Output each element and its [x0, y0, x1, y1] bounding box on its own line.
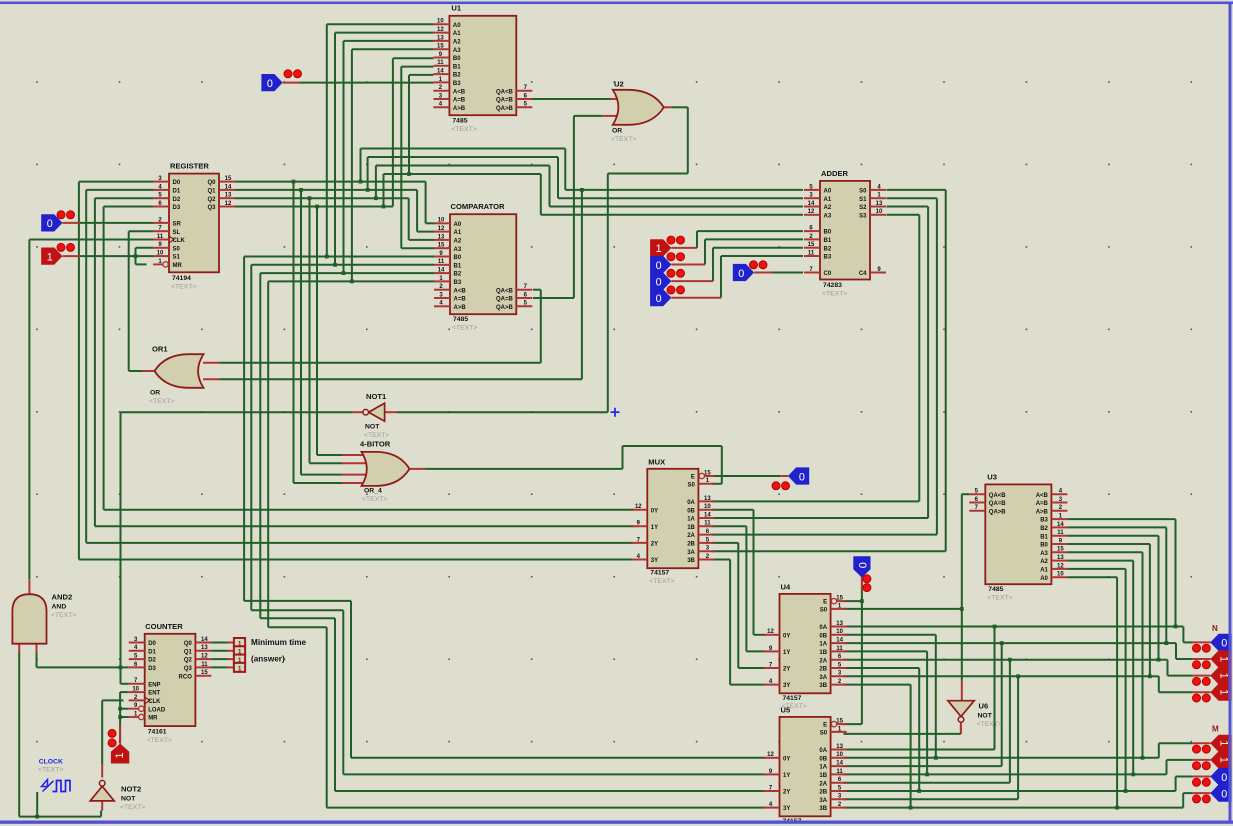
svg-text:D3: D3 — [173, 205, 181, 211]
svg-text:1: 1 — [656, 243, 662, 255]
svg-text:3Y: 3Y — [783, 806, 790, 812]
svg-text:AND2: AND2 — [52, 593, 73, 602]
svg-text:RCO: RCO — [179, 674, 193, 680]
svg-text:0B: 0B — [819, 633, 827, 639]
svg-text:3Y: 3Y — [651, 558, 658, 564]
wire AND2 output to REGISTER.CLK — [29, 240, 153, 580]
svg-text:<TEXT>: <TEXT> — [649, 578, 674, 585]
svg-text:MR: MR — [148, 716, 158, 722]
svg-text:OR_4: OR_4 — [364, 488, 382, 495]
wire net Q2: REGISTER.Q2 to ADDER.A2, COMPARATOR.A2, 4BITOR.in2 — [235, 166, 803, 464]
svg-text:A3: A3 — [453, 48, 461, 54]
svg-text:0: 0 — [1221, 772, 1227, 784]
ADDER 74283 — [804, 169, 886, 297]
wire logicstate 1 to REGISTER.S1, S0, MR — [80, 248, 153, 265]
svg-text:AND: AND — [52, 604, 67, 611]
logicstate 0 (U4/U5.E) — [853, 556, 871, 591]
svg-text:<TEXT>: <TEXT> — [451, 126, 476, 133]
svg-text:2B: 2B — [819, 667, 827, 673]
svg-text:QA<B: QA<B — [496, 288, 514, 294]
svg-text:S2: S2 — [859, 205, 867, 211]
svg-text:A<B: A<B — [454, 288, 467, 294]
svg-text:13: 13 — [438, 234, 445, 240]
wire MUX.0Y to REGISTER.D3 — [104, 207, 634, 510]
wire U4 output 0Y to MUX input 0B — [712, 510, 766, 635]
svg-text:A0: A0 — [1040, 576, 1048, 582]
wire MUX.1Y to REGISTER.D2 — [95, 198, 634, 526]
svg-text:1: 1 — [1217, 740, 1229, 746]
svg-text:12: 12 — [438, 226, 445, 232]
svg-text:C0: C0 — [824, 271, 832, 277]
svg-text:A1: A1 — [1040, 568, 1048, 574]
svg-text:3B: 3B — [819, 683, 827, 689]
wire U4 output 1Y to MUX input 1B — [712, 526, 766, 651]
REGISTER 74194 — [153, 162, 235, 291]
svg-text:0Y: 0Y — [783, 633, 790, 639]
svg-text:2Y: 2Y — [783, 790, 790, 796]
wire net U4 input 2A, U5 input 2A, U3 pin, probe N2 — [844, 536, 1193, 783]
svg-text:<TEXT>: <TEXT> — [611, 136, 636, 143]
svg-text:D2: D2 — [148, 658, 156, 664]
U5 74157 — [764, 706, 847, 826]
svg-text:A2: A2 — [824, 205, 832, 211]
svg-text:13: 13 — [201, 645, 208, 651]
logic probe array (counter value) — [228, 638, 246, 672]
svg-text:<TEXT>: <TEXT> — [147, 737, 172, 744]
svg-text:1B: 1B — [687, 525, 695, 531]
svg-text:11: 11 — [836, 769, 843, 775]
svg-text:13: 13 — [437, 35, 444, 41]
svg-text:1: 1 — [1217, 673, 1229, 679]
svg-text:0: 0 — [1221, 638, 1227, 650]
logicstate 0 (ADDER.B2) — [650, 269, 713, 289]
wire OR1 output to REGISTER.SL — [129, 231, 153, 371]
svg-text:A>B: A>B — [453, 106, 466, 112]
svg-text:10: 10 — [157, 251, 164, 257]
svg-text:12: 12 — [201, 654, 208, 660]
svg-text:A=B: A=B — [1036, 501, 1049, 507]
svg-text:B0: B0 — [453, 56, 461, 62]
net label N — [1212, 624, 1218, 633]
svg-text:1: 1 — [238, 665, 242, 672]
svg-text:M: M — [1212, 725, 1219, 734]
svg-text:ADDER: ADDER — [821, 169, 849, 178]
svg-text:2A: 2A — [687, 533, 695, 539]
svg-text:14: 14 — [438, 268, 445, 274]
svg-text:3B: 3B — [819, 806, 827, 812]
svg-text:NOT: NOT — [365, 424, 380, 431]
wire logicstate 0 to REGISTER.SR — [80, 222, 153, 224]
wire logicstate to ADDER.B1 — [705, 239, 803, 264]
svg-text:QA=B: QA=B — [496, 297, 514, 303]
svg-text:B3: B3 — [454, 280, 462, 286]
logic probe M3 — [1192, 785, 1232, 803]
svg-text:ENP: ENP — [148, 682, 160, 688]
logicstate 0 (ADDER.B3) — [650, 286, 721, 306]
svg-text:OR: OR — [150, 390, 160, 397]
svg-text:B1: B1 — [1040, 534, 1048, 540]
svg-text:14: 14 — [704, 512, 711, 518]
svg-text:3Y: 3Y — [783, 683, 790, 689]
svg-text:A0: A0 — [453, 23, 461, 29]
wire U4 output 2Y to MUX input 2B — [712, 543, 766, 668]
svg-text:NOT1: NOT1 — [366, 392, 387, 401]
svg-text:10: 10 — [876, 209, 883, 215]
svg-text:B0: B0 — [1040, 543, 1048, 549]
svg-text:Q1: Q1 — [207, 189, 216, 195]
svg-text:S0: S0 — [173, 246, 181, 252]
svg-text:14: 14 — [1057, 522, 1064, 528]
sheet border right (top layer) — [1229, 2, 1232, 824]
OR gate U2 — [602, 80, 672, 144]
wire ADDER.S2 to MUX input 1A — [712, 207, 928, 519]
wire ADDER.S1 to MUX input 2A — [712, 198, 937, 534]
COUNTER 74161 — [129, 622, 212, 744]
svg-text:0B: 0B — [819, 756, 827, 762]
svg-text:3A: 3A — [819, 798, 827, 804]
svg-text:<TEXT>: <TEXT> — [38, 767, 63, 774]
wire ADDER.S3 to MUX input 0A — [712, 215, 919, 502]
svg-text:15: 15 — [836, 719, 843, 725]
svg-text:SL: SL — [173, 230, 181, 236]
svg-text:11: 11 — [836, 646, 843, 652]
svg-text:A1: A1 — [454, 230, 462, 236]
wire COUNTER.Q1 to probe cell — [211, 650, 227, 652]
svg-text:S1: S1 — [859, 197, 867, 203]
svg-text:11: 11 — [438, 259, 445, 265]
wire COMPARATOR.QA=B to U2 input B — [533, 116, 602, 298]
svg-text:74161: 74161 — [148, 729, 167, 736]
svg-text:A=B: A=B — [454, 297, 467, 303]
COMPARATOR 7485 — [434, 202, 532, 331]
svg-text:11: 11 — [201, 662, 208, 668]
svg-text:0: 0 — [856, 562, 868, 568]
wire net U4 input 1B, U5 input 1B, U3 pin, probe M1 — [844, 561, 1193, 777]
svg-text:A2: A2 — [454, 239, 462, 245]
grid dots — [36, 81, 1192, 742]
U1 4-bit comparator 7485 — [433, 4, 532, 133]
svg-text:U5: U5 — [781, 706, 791, 715]
svg-text:OR: OR — [612, 128, 622, 135]
logic probe N0 — [1192, 634, 1232, 652]
wire U6 output to U5.S0 — [844, 725, 961, 734]
svg-text:B3: B3 — [453, 81, 461, 87]
svg-text:10: 10 — [438, 218, 445, 224]
svg-text:0: 0 — [267, 78, 273, 90]
OR gate 4-BITOR (4 input) — [342, 440, 426, 504]
logic probe M1 — [1192, 751, 1232, 769]
svg-text:E: E — [823, 600, 827, 606]
logic probe N2 — [1192, 667, 1232, 685]
svg-text:U1: U1 — [451, 4, 461, 13]
svg-text:12: 12 — [635, 504, 642, 510]
svg-text:14: 14 — [225, 184, 232, 190]
net label M — [1212, 725, 1219, 734]
logic probe N3 — [1192, 684, 1232, 702]
svg-text:1: 1 — [1217, 757, 1229, 763]
svg-text:15: 15 — [1057, 547, 1064, 553]
svg-text:10: 10 — [836, 752, 843, 758]
wire logicstate to ADDER.B2 — [713, 248, 803, 281]
NOT gate U6 — [948, 681, 1002, 734]
svg-text:A3: A3 — [824, 213, 832, 219]
sheet origin marker — [611, 408, 620, 417]
wire net U4 input 0A, U5 input 0A, U3 pin, probe N0 — [844, 519, 1193, 749]
svg-text:B2: B2 — [824, 246, 832, 252]
wire U4 output 3Y to MUX input 3B — [712, 560, 766, 685]
svg-text:E: E — [823, 723, 827, 729]
svg-text:(answer): (answer) — [251, 655, 285, 664]
sheet border right — [1229, 2, 1232, 824]
svg-text:A>B: A>B — [1036, 509, 1049, 515]
svg-text:0Y: 0Y — [651, 508, 658, 514]
wire MUX.2Y to REGISTER.D1 — [86, 190, 633, 543]
sheet border bottom — [0, 821, 1233, 824]
svg-text:QA>B: QA>B — [989, 509, 1007, 515]
svg-text:0B: 0B — [687, 508, 695, 514]
wire net Q0: REGISTER.Q0 to ADDER.A0, COMPARATOR.A0, 4BITOR.in4, OR1.in2 — [220, 149, 804, 484]
AND gate AND2 — [12, 579, 76, 652]
svg-text:11: 11 — [704, 521, 711, 527]
wire net U5.0Y: COMPARATOR.B0, U1.A0, U5 output 0Y — [244, 24, 765, 758]
svg-text:ENT: ENT — [148, 691, 160, 697]
svg-text:D3: D3 — [148, 666, 156, 672]
wire CLOCK output to AND2 input 1 and NOT2 input — [19, 652, 101, 818]
svg-text:A<B: A<B — [453, 89, 466, 95]
svg-text:1: 1 — [1217, 656, 1229, 662]
svg-text:A0: A0 — [824, 189, 832, 195]
svg-text:1Y: 1Y — [783, 650, 790, 656]
wire net U5.3Y: COMPARATOR.B3, U1.A3, U5 output 3Y — [268, 49, 765, 807]
MUX 74157 — [631, 458, 714, 586]
svg-text:SR: SR — [173, 222, 182, 228]
svg-text:B3: B3 — [824, 255, 832, 261]
logicstate 1 (COUNTER.LOAD/MR) — [108, 725, 129, 763]
svg-text:2A: 2A — [819, 781, 827, 787]
svg-text:A>B: A>B — [454, 305, 467, 311]
svg-text:B0: B0 — [454, 255, 462, 261]
svg-text:<TEXT>: <TEXT> — [51, 612, 76, 619]
svg-text:0A: 0A — [819, 748, 827, 754]
svg-text:NOT: NOT — [978, 713, 993, 720]
svg-text:U6: U6 — [979, 702, 989, 711]
svg-text:U4: U4 — [781, 583, 791, 592]
wire logicstate 0 to ADDER.C0 — [772, 272, 803, 274]
svg-text:A0: A0 — [454, 222, 462, 228]
svg-text:LOAD: LOAD — [148, 707, 166, 713]
svg-text:Q2: Q2 — [184, 658, 193, 664]
NOT gate NOT2 — [90, 765, 145, 811]
wire logicstate to ADDER.B0 — [697, 231, 803, 248]
svg-text:10: 10 — [1057, 572, 1064, 578]
svg-text:E: E — [691, 475, 695, 481]
svg-text:U3: U3 — [987, 473, 997, 482]
logic probe N1 — [1192, 650, 1232, 668]
svg-text:1: 1 — [47, 251, 53, 263]
svg-text:3A: 3A — [687, 550, 695, 556]
svg-text:A<B: A<B — [1036, 493, 1049, 499]
svg-text:A3: A3 — [454, 247, 462, 253]
svg-text:QA=B: QA=B — [496, 98, 514, 104]
svg-text:A3: A3 — [1040, 551, 1048, 557]
svg-text:<TEXT>: <TEXT> — [364, 432, 389, 439]
svg-text:D2: D2 — [173, 197, 181, 203]
svg-text:0: 0 — [656, 276, 662, 288]
svg-text:Q0: Q0 — [207, 180, 216, 186]
svg-text:REGISTER: REGISTER — [170, 162, 209, 171]
svg-text:QA<B: QA<B — [989, 493, 1007, 499]
svg-text:<TEXT>: <TEXT> — [362, 496, 387, 503]
svg-text:D0: D0 — [173, 180, 181, 186]
svg-text:15: 15 — [836, 596, 843, 602]
wire MUX.3Y to REGISTER.D0 — [79, 182, 634, 560]
svg-text:1Y: 1Y — [783, 773, 790, 779]
svg-text:2Y: 2Y — [651, 542, 658, 548]
svg-text:1B: 1B — [819, 773, 827, 779]
svg-text:1A: 1A — [687, 517, 695, 523]
svg-text:OR1: OR1 — [152, 345, 168, 354]
svg-text:13: 13 — [225, 193, 232, 199]
svg-text:0A: 0A — [687, 500, 695, 506]
sheet border top — [0, 2, 1233, 5]
wire net U5.2Y: COMPARATOR.B2, U1.A2, U5 output 2Y — [260, 41, 765, 791]
wire COUNTER.Q2 to probe cell — [211, 658, 227, 660]
svg-text:14: 14 — [437, 69, 444, 75]
svg-text:QA=B: QA=B — [989, 501, 1007, 507]
svg-text:3B: 3B — [687, 558, 695, 564]
svg-text:S0: S0 — [820, 731, 828, 737]
logicstate 0 (ADDER.C0) — [733, 261, 772, 281]
svg-text:0Y: 0Y — [783, 756, 790, 762]
svg-text:A2: A2 — [453, 40, 461, 46]
svg-text:12: 12 — [808, 209, 815, 215]
svg-text:B1: B1 — [454, 263, 462, 269]
svg-text:<TEXT>: <TEXT> — [987, 594, 1012, 601]
svg-text:CLK: CLK — [148, 699, 161, 705]
wire net Q1: REGISTER.Q1 to ADDER.A1, COMPARATOR.A1, 4BITOR.in3 — [235, 157, 803, 475]
svg-text:14: 14 — [836, 638, 843, 644]
svg-text:COMPARATOR: COMPARATOR — [451, 202, 506, 211]
svg-text:<TEXT>: <TEXT> — [977, 721, 1002, 728]
svg-text:0: 0 — [738, 268, 744, 280]
svg-text:1: 1 — [1217, 689, 1229, 695]
svg-text:<TEXT>: <TEXT> — [149, 398, 174, 405]
svg-text:U2: U2 — [614, 80, 624, 89]
svg-text:74283: 74283 — [823, 282, 842, 289]
svg-text:<TEXT>: <TEXT> — [452, 324, 477, 331]
wire U3.QA<B to U4.S0 and U6 input — [844, 494, 970, 681]
wire COMPARATOR.QA<B to OR1 input 1 — [220, 290, 541, 363]
svg-text:D1: D1 — [173, 189, 181, 195]
svg-text:B1: B1 — [824, 238, 832, 244]
svg-text:1A: 1A — [819, 642, 827, 648]
svg-text:1B: 1B — [819, 650, 827, 656]
svg-text:15: 15 — [201, 670, 208, 676]
svg-text:13: 13 — [1057, 555, 1064, 561]
svg-text:0: 0 — [656, 293, 662, 305]
svg-text:10: 10 — [132, 687, 139, 693]
svg-text:0: 0 — [656, 260, 662, 272]
wire net U4 input 0B, U5 input 0B, U3 pin, probe M0 — [844, 552, 1193, 759]
wire U2 output to NOT1 input — [397, 107, 688, 412]
svg-text:D0: D0 — [148, 641, 156, 647]
svg-text:7485: 7485 — [988, 586, 1003, 593]
U4 74157 — [764, 583, 847, 711]
svg-text:S3: S3 — [859, 213, 867, 219]
svg-text:11: 11 — [437, 60, 444, 66]
svg-text:Q2: Q2 — [207, 197, 216, 203]
svg-text:11: 11 — [157, 234, 164, 240]
svg-text:A=B: A=B — [453, 98, 466, 104]
svg-text:14: 14 — [836, 761, 843, 767]
logicstate 0 (REGISTER.SR) — [41, 211, 80, 232]
wire net U4 input 3A, U5 input 3A, U3 pin, probe N3 — [844, 544, 1193, 799]
wire NOT2 output to COUNTER.CLK — [102, 700, 123, 764]
svg-text:10: 10 — [836, 629, 843, 635]
svg-text:B0: B0 — [824, 230, 832, 236]
svg-text:QA>B: QA>B — [496, 106, 514, 112]
wire NOT1 output to COUNTER.ENP and AND2.in2 / COUNTER.D3 — [37, 412, 352, 684]
wire COUNTER.Q3 to probe cell — [211, 666, 227, 668]
svg-text:A1: A1 — [453, 31, 461, 37]
svg-text:S1: S1 — [173, 255, 181, 261]
OR gate OR1 — [142, 345, 220, 406]
svg-text:12: 12 — [1057, 563, 1064, 569]
svg-text:14: 14 — [201, 637, 208, 643]
svg-text:A2: A2 — [1040, 559, 1048, 565]
svg-text:Q3: Q3 — [184, 666, 193, 672]
wire ADDER.S0 to MUX input 3A — [712, 190, 946, 551]
svg-text:MR: MR — [173, 263, 183, 269]
wire net U4 input 3B, U5 input 3B, U3 pin, probe M3 — [844, 577, 1193, 809]
svg-text:2B: 2B — [687, 542, 695, 548]
svg-text:Q0: Q0 — [184, 641, 193, 647]
svg-text:CLK: CLK — [173, 238, 186, 244]
wire U1.QA=B to U2 input A — [530, 98, 610, 100]
svg-text:B1: B1 — [453, 64, 461, 70]
svg-text:1Y: 1Y — [651, 525, 658, 531]
svg-text:74157: 74157 — [650, 570, 669, 577]
svg-text:B2: B2 — [454, 272, 462, 278]
svg-text:14: 14 — [808, 201, 815, 207]
svg-text:0: 0 — [799, 471, 805, 483]
svg-text:7485: 7485 — [452, 118, 467, 125]
wire logicstate 0 to U4.E and U5.E — [844, 578, 864, 725]
svg-text:S0: S0 — [688, 482, 696, 488]
wire net U5.1Y: COMPARATOR.B1, U1.A1, U5 output 1Y — [251, 33, 765, 775]
wire logicstate 1 to COUNTER.ENT, LOAD, MR — [118, 692, 129, 744]
svg-text:Q1: Q1 — [184, 649, 193, 655]
svg-text:2Y: 2Y — [783, 667, 790, 673]
svg-text:0A: 0A — [819, 625, 827, 631]
U3 4-bit comparator 7485 (mirrored) — [969, 473, 1067, 602]
svg-text:C4: C4 — [859, 271, 867, 277]
svg-text:COUNTER: COUNTER — [145, 622, 183, 631]
svg-text:2B: 2B — [819, 790, 827, 796]
svg-text:15: 15 — [438, 243, 445, 249]
svg-text:QA<B: QA<B — [496, 89, 514, 95]
svg-text:12: 12 — [767, 629, 774, 635]
svg-text:13: 13 — [704, 496, 711, 502]
svg-text:NOT: NOT — [121, 796, 136, 803]
wire net U1.B1 to COMPARATOR.A3 — [401, 67, 434, 249]
svg-text:74157: 74157 — [783, 695, 802, 702]
svg-text:CLOCK: CLOCK — [39, 759, 63, 766]
wire net U4 input 1A, U5 input 1A, U3 pin, probe N1 — [844, 527, 1193, 766]
svg-text:B2: B2 — [1040, 526, 1048, 532]
svg-text:13: 13 — [836, 621, 843, 627]
svg-text:1A: 1A — [819, 765, 827, 771]
